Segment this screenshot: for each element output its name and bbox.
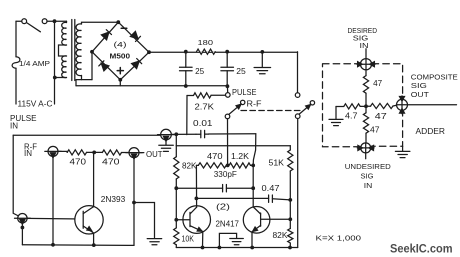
- capacitor C4 330pF: [176, 185, 253, 192]
- wire rail to pulse contact: [297, 52, 299, 93]
- node ground bracket tap: [218, 246, 222, 250]
- diode D1 top-left: [101, 30, 111, 40]
- label 4.7: [345, 111, 358, 120]
- shield box left edge: [13, 135, 18, 216]
- svg-text:25: 25: [236, 67, 246, 76]
- svg-text:82K: 82K: [273, 231, 289, 240]
- label 2.7K: [195, 102, 215, 111]
- ground rail: [254, 52, 271, 74]
- svg-text:2N393: 2N393: [101, 195, 126, 204]
- label 330pF: [214, 170, 237, 179]
- label 25 second: [236, 67, 246, 76]
- label 0.01: [193, 119, 213, 128]
- svg-text:25: 25: [195, 67, 205, 76]
- svg-text:1.2K: 1.2K: [231, 152, 250, 161]
- ground adder 4.7: [329, 107, 343, 126]
- wire Q1 emitter: [93, 233, 95, 245]
- switch S1 contact left: [22, 19, 27, 24]
- wire pulse-in drop: [21, 223, 23, 245]
- node bridge bottom: [118, 78, 122, 82]
- ground multivibrator: [230, 239, 244, 245]
- wire multivib supply rail: [176, 145, 290, 147]
- resistor R16 47 lower: [363, 106, 368, 143]
- wire coupling line: [196, 198, 290, 200]
- node cap2 top: [225, 50, 229, 54]
- svg-text:K=X 1,000: K=X 1,000: [316, 233, 362, 242]
- svg-text:PULSE: PULSE: [232, 88, 257, 97]
- resistor R9 470: [198, 163, 226, 168]
- node C5 right: [288, 198, 292, 202]
- wire right common drop: [297, 119, 299, 248]
- wire switch feed: [16, 20, 22, 22]
- label 47 lower: [370, 126, 380, 135]
- connector J5 DESIRED SIG IN: [357, 59, 375, 70]
- label 51K: [269, 158, 285, 167]
- wire multivib ground rail: [176, 247, 297, 249]
- svg-text:UNDESIRED: UNDESIRED: [345, 162, 391, 171]
- svg-text:82K: 82K: [182, 161, 197, 170]
- svg-text:IN: IN: [364, 181, 373, 190]
- svg-text:COMPOSITE: COMPOSITE: [411, 72, 458, 81]
- label ADDER: [416, 127, 446, 136]
- transformer T1 core: [72, 20, 75, 81]
- label 180: [198, 38, 214, 47]
- label R-F selector: [247, 99, 262, 108]
- wire pulse base line: [27, 217, 83, 220]
- resistor R 2.7K: [187, 93, 226, 98]
- connector J6 COMPOSITE SIG OUT: [397, 96, 408, 114]
- connector J3 OUT: [126, 148, 142, 159]
- transistor Q3 2N417 right: [243, 207, 290, 234]
- node cap1 top: [184, 50, 188, 54]
- label 0.47: [262, 184, 280, 193]
- transistor Q2 2N417 left: [176, 206, 210, 234]
- svg-text:SIG: SIG: [361, 171, 374, 180]
- node Q2 collector tap: [195, 197, 199, 201]
- svg-text:SeekIC.com: SeekIC.com: [390, 241, 453, 255]
- capacitor C3 0.01: [196, 130, 209, 137]
- label bridge plus: [117, 68, 123, 74]
- node rail cap1 bottom: [184, 84, 188, 88]
- node RF shield rail: [51, 243, 55, 247]
- node pulse-in shield: [21, 226, 25, 230]
- wire Q3 emitter drop: [251, 232, 253, 248]
- node R5 R6 junction: [92, 151, 96, 155]
- resistor R8 10K: [174, 220, 179, 248]
- wire 51K node to Q3 base: [289, 200, 291, 219]
- wire left common drop: [227, 119, 229, 166]
- node primary bottom: [53, 76, 57, 80]
- resistor R10 1.2K: [229, 163, 253, 168]
- label bridge M500: [110, 52, 131, 61]
- wire supply rail stub: [175, 134, 177, 145]
- node rail ground tap: [260, 50, 264, 54]
- label (2): [216, 203, 231, 212]
- switch gang dashed link: [241, 110, 302, 112]
- label 2N417: [216, 220, 240, 229]
- capacitor C1 25: [180, 52, 193, 86]
- wire R-F shield drop: [52, 156, 54, 244]
- shield box top edge: [13, 134, 161, 136]
- diode D3 bottom-left: [99, 61, 109, 71]
- diode D2 top-right: [130, 31, 140, 41]
- wire J2 to R5: [58, 151, 67, 152]
- svg-text:SIG: SIG: [411, 81, 427, 90]
- wire OUT shield drop: [133, 158, 135, 246]
- node Q2 base node: [174, 186, 178, 190]
- switch contact PULSE right: [295, 93, 300, 98]
- label bridge minus: [121, 27, 127, 29]
- resistor R14 4.7: [336, 104, 366, 109]
- resistor row left corner: [196, 164, 198, 166]
- connector J2 R-F IN: [45, 146, 61, 157]
- wire 2.7K drop to signal line: [186, 96, 188, 135]
- connector J7 UNDESIRED SIG IN: [357, 143, 374, 153]
- svg-text:47: 47: [370, 126, 380, 135]
- svg-text:0.01: 0.01: [193, 119, 213, 128]
- resistor R5 470: [67, 150, 86, 155]
- node Q2 emitter rail: [201, 246, 205, 250]
- svg-text:1/4 AMP: 1/4 AMP: [19, 59, 50, 68]
- node Q3 emitter rail: [250, 246, 254, 250]
- fuse 1/4 AMP: [12, 57, 20, 68]
- label 470 second: [102, 157, 120, 166]
- resistor R6 470: [102, 150, 121, 155]
- svg-text:R-F: R-F: [247, 99, 262, 108]
- ground J4 shield: [159, 145, 174, 151]
- ground adder right: [395, 146, 410, 157]
- wire signal corner drop: [253, 134, 256, 166]
- transformer T1 secondary winding: [76, 22, 117, 79]
- label 47 top: [373, 79, 382, 88]
- node adder sum: [364, 104, 368, 108]
- label K=X 1000: [316, 233, 362, 242]
- resistor R11 51K: [288, 146, 293, 200]
- wire undesired-in lead: [365, 153, 367, 159]
- connector J1 PULSE IN: [15, 214, 31, 225]
- svg-text:M500: M500: [110, 52, 131, 61]
- svg-text:51K: 51K: [269, 158, 285, 167]
- switch S1 contact right: [42, 19, 47, 24]
- label R-F IN: [24, 142, 37, 158]
- label UNDESIRED SIG IN: [345, 162, 391, 190]
- svg-text:470: 470: [102, 157, 120, 166]
- svg-text:2N417: 2N417: [216, 220, 240, 229]
- node R12 rail: [288, 246, 292, 250]
- svg-text:2.7K: 2.7K: [195, 102, 215, 111]
- wire OUT stub: [139, 152, 144, 154]
- label 470 first: [70, 157, 87, 166]
- connector J4 feedthrough: [158, 129, 175, 141]
- label PULSE IN: [10, 114, 37, 123]
- wire J4 ground stem: [165, 140, 167, 145]
- resistor R15 47 horizontal: [366, 103, 397, 108]
- transformer T1 primary winding lower: [55, 56, 67, 78]
- label PULSE selector: [232, 88, 257, 97]
- node sync injection: [226, 164, 230, 168]
- ground left box inner: [147, 239, 162, 245]
- svg-text:47: 47: [375, 112, 387, 121]
- wire primary return vertical: [54, 21, 56, 104]
- label 10K: [182, 234, 195, 243]
- label 82K right: [273, 231, 289, 240]
- wire signal line J4 to corner: [171, 133, 256, 136]
- node Q1 emitter rail: [92, 243, 96, 247]
- label 1/4 AMP: [19, 59, 50, 68]
- label DESIRED SIG IN: [348, 26, 378, 50]
- wire 82K to base: [175, 188, 177, 220]
- label 2N393: [101, 195, 126, 204]
- node C4 right: [251, 186, 255, 190]
- svg-text:ADDER: ADDER: [416, 127, 446, 136]
- label bridge (4): [114, 40, 128, 49]
- wire R6 to J3: [122, 152, 130, 154]
- switch S1 blade: [27, 23, 41, 32]
- label OUT: [146, 150, 163, 159]
- switch contact common left: [225, 114, 230, 119]
- node rail pulse takeoff: [226, 84, 230, 88]
- node primary top: [53, 19, 57, 23]
- label 1.2K: [231, 152, 250, 161]
- resistor R7 82K: [174, 146, 179, 189]
- wire positive rail top: [149, 51, 298, 53]
- node bridge left: [90, 50, 94, 54]
- node bridge right: [147, 50, 151, 54]
- wire 115V hot lead left vertical: [15, 21, 17, 104]
- bridge rectifier M500 diamond: [92, 22, 149, 80]
- watermark SeekIC.com: [390, 241, 453, 255]
- wire switch to transformer: [47, 20, 67, 22]
- wire sync drop crossing: [228, 164, 229, 166]
- svg-text:(2): (2): [216, 203, 231, 212]
- switch contact common right: [295, 114, 300, 119]
- label IN pulse: [10, 121, 18, 130]
- switch blade left wafer: [228, 104, 241, 115]
- svg-text:4.7: 4.7: [345, 111, 358, 120]
- wire Q3 collector riser: [252, 165, 254, 207]
- node Q2 base tie: [174, 218, 178, 222]
- wire secondary bottom lead: [76, 80, 92, 86]
- wire shield ground branch: [134, 203, 155, 238]
- svg-text:IN: IN: [10, 121, 18, 130]
- node supply tap: [174, 132, 178, 136]
- label 115V A-C: [18, 100, 53, 109]
- label 470 row: [207, 152, 223, 161]
- wire Q1 collector: [93, 152, 95, 206]
- resistor R13 47: [363, 70, 368, 107]
- svg-text:IN: IN: [24, 149, 32, 158]
- svg-text:(4): (4): [114, 40, 128, 49]
- node bridge top: [116, 20, 120, 24]
- label COMPOSITE SIG OUT: [411, 72, 458, 99]
- svg-text:10K: 10K: [182, 234, 195, 243]
- svg-text:330pF: 330pF: [214, 170, 237, 179]
- svg-text:OUT: OUT: [146, 150, 163, 159]
- wire composite out: [408, 104, 457, 106]
- svg-text:OUT: OUT: [411, 90, 429, 99]
- switch contact R-F left: [241, 100, 245, 104]
- node collector Q3 row: [251, 164, 255, 168]
- diode D4 bottom-right: [132, 59, 142, 69]
- wire R5-R6: [87, 151, 103, 153]
- capacitor C5 0.47: [269, 195, 273, 202]
- wire desired-in lead: [365, 49, 367, 59]
- label 25 first: [195, 67, 205, 76]
- node Q3 base tie: [288, 217, 292, 221]
- svg-text:180: 180: [198, 38, 214, 47]
- transistor Q1 2N393: [75, 206, 103, 234]
- svg-text:IN: IN: [360, 41, 369, 50]
- svg-text:47: 47: [373, 79, 382, 88]
- adder dashed box: [323, 64, 403, 147]
- switch contact PULSE left: [226, 93, 231, 98]
- label 82K left: [182, 161, 197, 170]
- transformer T1 primary tap jog: [59, 45, 67, 56]
- svg-text:470: 470: [207, 152, 223, 161]
- svg-text:470: 470: [70, 157, 87, 166]
- wire Q2 collector riser: [195, 165, 197, 207]
- wire Q2 emitter drop: [202, 232, 204, 248]
- transformer T1 primary winding upper: [62, 21, 67, 45]
- capacitor C2 25: [221, 52, 234, 87]
- node OUT shield ground tap: [132, 201, 136, 205]
- svg-text:0.47: 0.47: [262, 184, 280, 193]
- wire cap2 to pulse contact: [226, 86, 228, 92]
- resistor R 180: [197, 49, 216, 54]
- wire ground bracket: [219, 233, 236, 247]
- switch blade right wafer: [299, 105, 311, 115]
- label 47 horizontal: [375, 112, 387, 121]
- wire bottom DC rail: [76, 80, 227, 86]
- wire left box bottom rail: [22, 244, 134, 247]
- wire bridge left vertex to secondary: [91, 52, 93, 80]
- switch contact R-F right: [310, 101, 314, 105]
- resistor R12 82K: [288, 219, 293, 247]
- svg-text:115V A-C: 115V A-C: [18, 100, 53, 109]
